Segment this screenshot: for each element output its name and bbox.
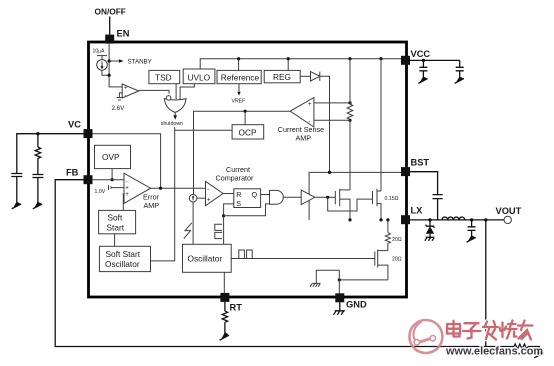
watermark logo circle bbox=[409, 320, 442, 353]
transistor Q2 channel bar bbox=[376, 189, 378, 206]
svg-text:20Ω: 20Ω bbox=[392, 257, 402, 263]
transistor Q2 source lead bbox=[377, 204, 381, 220]
svg-text:OCP: OCP bbox=[239, 128, 257, 138]
junction 20ohm/LX line bbox=[386, 218, 389, 221]
capacitor C6 comp bbox=[32, 175, 43, 206]
terminal VOUT bbox=[504, 216, 511, 223]
wire ON/OFF to EN bbox=[109, 17, 111, 35]
svg-text:REG: REG bbox=[273, 72, 291, 82]
svg-text:Soft Start: Soft Start bbox=[106, 249, 141, 259]
junction LX out/Cout bbox=[470, 218, 473, 221]
svg-text:-: - bbox=[207, 186, 209, 193]
box Soft Start bbox=[99, 210, 136, 233]
svg-text:Q: Q bbox=[252, 190, 258, 199]
svg-text:EN: EN bbox=[117, 29, 130, 39]
junction OVP/FB wire bbox=[111, 178, 114, 181]
icon ramp waveform bbox=[184, 223, 192, 239]
transistor Q1 channel bar bbox=[339, 189, 341, 206]
diode D2 schottky bbox=[426, 220, 434, 228]
transistor Q1 high-side FET gate bar bbox=[334, 191, 336, 204]
junction CS output/OCP stub bbox=[244, 110, 247, 113]
svg-text:LX: LX bbox=[411, 206, 424, 216]
svg-text:AMP: AMP bbox=[296, 134, 312, 143]
capacitor C4 output bbox=[468, 220, 476, 237]
svg-text:AMP: AMP bbox=[144, 201, 160, 210]
internal VCC rail bbox=[200, 59, 401, 69]
wire Soft Start to SS oscillator bbox=[114, 234, 116, 247]
pin EN bbox=[105, 35, 114, 44]
junction STANBY tap bbox=[108, 59, 111, 62]
box RS flip-flop bbox=[234, 189, 261, 208]
junction EN/current source bbox=[108, 74, 111, 77]
wire feedback bottom right to divider bbox=[486, 346, 514, 348]
wire TSD to OR gate bbox=[175, 84, 177, 100]
svg-text:BST: BST bbox=[411, 158, 430, 168]
current source I1 top bar bbox=[97, 55, 107, 57]
ground C4 (chassis) bbox=[467, 235, 475, 242]
pin RT bbox=[220, 293, 229, 302]
arrow VREF bbox=[237, 92, 240, 96]
battery 1.0V reference bbox=[109, 185, 125, 190]
resistor 20ohm upper (LX to Q3 drain) bbox=[385, 220, 390, 251]
svg-text:S: S bbox=[236, 199, 241, 208]
transistor Q2 drain lead bbox=[377, 190, 381, 192]
svg-text:VOUT: VOUT bbox=[496, 206, 522, 216]
wire AND output to buffer bbox=[283, 196, 301, 198]
svg-text:20Ω: 20Ω bbox=[392, 237, 402, 243]
ground C1 bbox=[419, 77, 427, 84]
box REG bbox=[264, 70, 300, 82]
icon square wave (on S line) bbox=[215, 224, 222, 238]
wire LX external line bbox=[410, 219, 504, 221]
wire diode to driver block bbox=[320, 76, 330, 172]
wire OVP to FB bbox=[111, 169, 113, 180]
svg-text:2.6V: 2.6V bbox=[112, 105, 126, 112]
wire current source to EN line bbox=[102, 56, 109, 76]
wire UVLO to OR gate bbox=[180, 84, 194, 100]
wire GND pin external bbox=[339, 302, 341, 311]
junction Q1 source/LX line bbox=[348, 218, 351, 221]
bubble on OR input bbox=[166, 96, 171, 101]
op-amp Current Sense AMP (pointing left) bbox=[290, 98, 314, 128]
svg-text:VCC: VCC bbox=[411, 49, 431, 59]
capacitor C1 (VCC bypass) bbox=[419, 60, 427, 79]
wire OR output bbox=[174, 112, 176, 115]
ground C6 (slant arrow) bbox=[34, 202, 42, 209]
op-amp EN comparator bbox=[122, 84, 139, 98]
box Oscillator bbox=[183, 244, 232, 272]
pin LX bbox=[401, 215, 410, 224]
pin VC bbox=[84, 129, 93, 138]
capacitor C5 comp bbox=[11, 174, 22, 206]
ground feedback divider bbox=[535, 351, 543, 358]
wire STANBY tap bbox=[109, 60, 119, 62]
wire gate node down-right to FET2 gate bbox=[328, 197, 373, 211]
box OCP bbox=[232, 125, 264, 139]
wire OCP top stub bbox=[244, 111, 246, 125]
wire summing circle to oscillator bbox=[192, 202, 194, 244]
svg-text:Comparator: Comparator bbox=[216, 174, 255, 183]
transistor Q1 drain lead bbox=[340, 189, 350, 191]
transistor Q3 channel bar bbox=[377, 250, 379, 268]
wire feedback down bbox=[485, 220, 487, 347]
junction rail/sense resistor bbox=[348, 57, 351, 60]
wire S input bbox=[224, 204, 234, 244]
transistor Q2 high-side FET gate bar bbox=[372, 191, 374, 204]
svg-text:RT: RT bbox=[230, 303, 243, 313]
driver block rectangle bbox=[309, 172, 401, 220]
svg-text:1.0V: 1.0V bbox=[95, 189, 106, 195]
wire REG top stub bbox=[287, 59, 289, 71]
junction rail/Reference bbox=[237, 57, 240, 60]
ground RT (slant arrow) bbox=[221, 332, 229, 341]
wire BST external to bootstrap cap bbox=[410, 172, 438, 195]
wire divider to ground bbox=[528, 347, 539, 355]
wire Reference top stub bbox=[238, 59, 240, 71]
junction rail/FET2 drain line bbox=[379, 57, 382, 60]
resistor R1 comp bbox=[35, 134, 40, 174]
wire VC compensation bbox=[17, 134, 84, 173]
junction LX/schottky bbox=[428, 218, 431, 221]
svg-text:-: - bbox=[124, 92, 126, 99]
capacitor C2 (VCC bypass) bbox=[456, 60, 464, 79]
svg-text:shutdown: shutdown bbox=[161, 121, 183, 127]
svg-text:FB: FB bbox=[66, 168, 79, 178]
svg-text:Reference: Reference bbox=[221, 72, 260, 82]
svg-text:Start: Start bbox=[107, 223, 125, 233]
wire error amp output bbox=[151, 187, 206, 189]
wire CS amp plus input bbox=[314, 102, 350, 104]
capacitor C3 bootstrap bbox=[433, 195, 443, 220]
box OVP bbox=[95, 145, 131, 168]
wire REG to diode bbox=[300, 75, 310, 77]
junction diode line/driver top bbox=[328, 171, 331, 174]
wire 2.6V to comparator minus bbox=[119, 93, 122, 98]
svg-text:0.15Ω: 0.15Ω bbox=[385, 196, 399, 202]
wire rail to sense resistor bbox=[349, 59, 351, 104]
box UVLO bbox=[183, 69, 215, 84]
wire comparator output to RS flip-flop bbox=[223, 193, 234, 195]
wire RT resistor to ground bbox=[224, 322, 226, 337]
transistor Q3 source lead bbox=[378, 265, 388, 280]
arrow shutdown bbox=[173, 115, 177, 119]
svg-text:Oscillator: Oscillator bbox=[105, 259, 140, 269]
wire CS amp output bbox=[194, 111, 291, 194]
junction rail/REG bbox=[287, 57, 290, 60]
wire RT external bbox=[224, 302, 226, 311]
inductor L1 bbox=[442, 217, 465, 220]
ground C5 (slant arrow) bbox=[12, 202, 20, 209]
diode D1 (REG bootstrap) bbox=[311, 72, 320, 81]
transistor Q3 drain lead bbox=[378, 250, 388, 252]
battery 2.6V bbox=[116, 98, 122, 101]
wire soft start to error amp third input bbox=[122, 194, 125, 211]
wire buffer output to gate node bbox=[315, 196, 335, 198]
comparator Current Comparator bbox=[206, 181, 224, 205]
op-amp Error AMP bbox=[124, 173, 151, 203]
wire VREF stub bbox=[238, 84, 240, 93]
junction Q2 source/LX line bbox=[379, 218, 382, 221]
junction S line branch bbox=[222, 214, 225, 217]
current source I1 bbox=[97, 60, 108, 71]
watermark chinese characters bbox=[447, 321, 533, 340]
wire feedback bottom line bbox=[55, 180, 486, 347]
wire shutdown line down to SS oscillator bbox=[151, 127, 175, 261]
svg-text:GND: GND bbox=[346, 300, 367, 310]
junction gate node bbox=[326, 196, 329, 199]
junction VC/error amp output bbox=[159, 187, 162, 190]
wire CS amp minus input bbox=[314, 119, 350, 121]
wire sense resistor bottom to FET1 drain bbox=[349, 120, 351, 190]
svg-text:STANBY: STANBY bbox=[128, 59, 152, 66]
svg-text:+: + bbox=[124, 85, 128, 92]
svg-text:www.elecfans.com: www.elecfans.com bbox=[445, 346, 543, 358]
wire GND node to GND pin bbox=[338, 280, 340, 293]
junction VOUT/feedback bbox=[484, 218, 487, 221]
box TSD bbox=[149, 70, 180, 83]
svg-text:ON/OFF: ON/OFF bbox=[95, 7, 126, 17]
pin VCC bbox=[401, 56, 410, 65]
resistor RT (vertical zigzag) bbox=[222, 311, 227, 322]
ground C2 bbox=[455, 77, 463, 84]
buffer driver (white filled) bbox=[301, 190, 315, 205]
wire VCC external bbox=[410, 59, 460, 61]
svg-text:OVP: OVP bbox=[102, 152, 120, 162]
AND gate U2 bbox=[270, 190, 284, 204]
OR gate shutdown (pointing down) bbox=[164, 99, 186, 113]
wire oscillator output to low-side gate bbox=[231, 258, 375, 260]
pin GND bbox=[335, 293, 344, 302]
junction minus/sense resistor bottom bbox=[348, 119, 351, 122]
svg-text:+: + bbox=[125, 191, 129, 198]
ground internal (chassis) bbox=[310, 283, 320, 286]
box Soft Start Oscillator bbox=[99, 246, 150, 271]
transistor Q1 source lead bbox=[340, 199, 350, 220]
wire VC to error amp output node bbox=[93, 134, 161, 189]
icon square wave (oscillator output) bbox=[239, 250, 252, 259]
svg-text:VC: VC bbox=[68, 120, 81, 130]
box Reference bbox=[217, 70, 261, 83]
junction VC comp branch bbox=[36, 132, 39, 135]
pin BST bbox=[401, 167, 410, 176]
ground GND pin (chassis) bbox=[334, 311, 345, 315]
svg-text:+: + bbox=[207, 197, 211, 204]
summing circle (slope comp) bbox=[189, 194, 197, 202]
svg-text:Soft: Soft bbox=[108, 213, 123, 223]
current source I1 arrow bbox=[101, 62, 103, 68]
wire rail to FET2 drain (long) bbox=[380, 59, 382, 191]
resistor sense (vertical zigzag) bbox=[347, 104, 353, 119]
junction GND node bbox=[338, 278, 341, 281]
svg-text:TSD: TSD bbox=[155, 72, 172, 82]
svg-text:VREF: VREF bbox=[232, 99, 246, 105]
wire shutdown branch to OCP bbox=[175, 129, 232, 131]
transistor Q3 low-side FET gate bar bbox=[374, 252, 376, 266]
wire summing circle to comparator plus bbox=[197, 197, 206, 199]
junction VCC/C1 bbox=[422, 59, 425, 62]
wire FB to error amp bbox=[93, 179, 125, 181]
wire EN pin down inside bbox=[109, 44, 122, 87]
resistor R2 (feedback, horizontal zigzag) bbox=[514, 344, 528, 349]
junction plus/sense resistor top bbox=[348, 101, 351, 104]
wire GND node detour to internal ground bbox=[316, 270, 339, 283]
wire Q output to AND bbox=[261, 194, 270, 196]
pin FB bbox=[84, 175, 93, 184]
wire comparator output to OR bubble bbox=[139, 90, 169, 93]
wire oscillator to RT pin bbox=[223, 272, 225, 293]
svg-text:+: + bbox=[308, 101, 312, 108]
wire S branch to AND lower input bbox=[224, 204, 270, 216]
svg-text:Oscillator: Oscillator bbox=[188, 254, 223, 264]
wire Q3 source to GND node bbox=[339, 279, 388, 281]
IC boundary box bbox=[89, 42, 407, 297]
arrow STANBY bbox=[119, 59, 124, 63]
svg-text:UVLO: UVLO bbox=[188, 72, 211, 82]
